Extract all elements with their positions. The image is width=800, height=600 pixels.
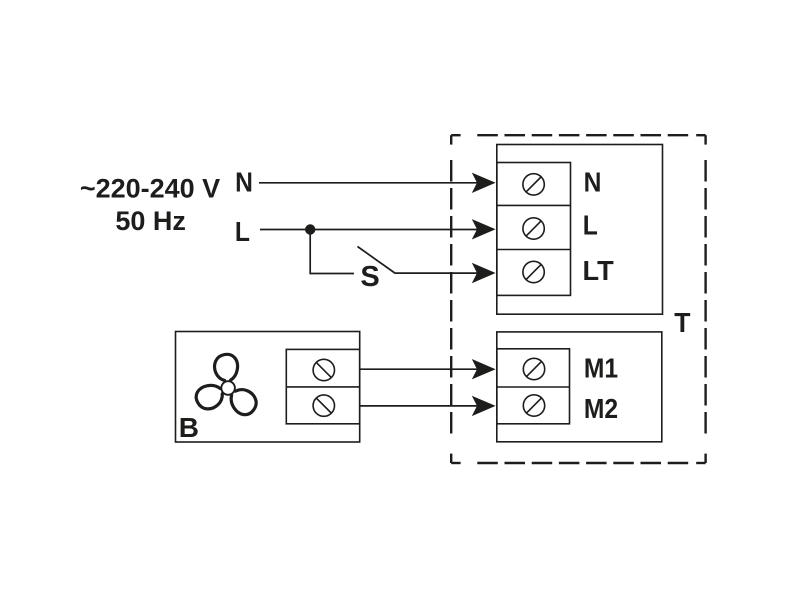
svg-text:LT: LT [583,255,614,286]
fan unit housing B [176,332,360,443]
arrowhead into terminal LT [472,263,496,283]
svg-text:~220-240 V: ~220-240 V [80,174,220,204]
wire L supply to terminal L [260,229,478,231]
switch S blade (open) [358,247,396,274]
svg-text:T: T [674,306,691,338]
screw terminal L [523,218,544,239]
wire junction down to switch [310,230,354,274]
terminal strip M1/M2 [497,349,570,424]
arrowhead into terminal N [472,173,496,193]
svg-text:L: L [583,209,598,241]
screw terminal M1 [523,358,544,379]
wire fan terminal to M2 [360,405,478,407]
terminal block upper housing [497,145,663,315]
screw terminal LT [523,261,544,282]
wire switch to terminal LT [396,272,479,274]
svg-text:L: L [235,215,250,247]
arrowhead into terminal M1 [472,359,496,379]
divider N/L [497,204,571,206]
fan motor terminal strip [286,349,359,423]
svg-text:M2: M2 [584,393,618,425]
junction on L wire [305,224,315,234]
dashed enclosure T (timer unit boundary) [451,135,705,463]
label ~220-240 V 50 Hz (supply rating) [80,174,220,237]
wire N supply to terminal N [259,182,478,184]
divider M1/M2 [497,386,570,388]
terminal strip N/L/LT [497,163,571,296]
svg-text:50 Hz: 50 Hz [115,206,186,236]
fan impeller symbol [193,354,261,419]
divider fan terminals [286,386,359,388]
terminal block lower housing [497,332,662,442]
arrowhead into terminal M2 [472,396,496,416]
screw terminal N [523,174,544,195]
svg-text:N: N [584,166,602,198]
wire fan terminal to M1 [360,368,478,370]
screw terminal M2 [523,395,544,416]
svg-text:S: S [360,261,379,293]
svg-text:M1: M1 [584,352,618,384]
fan screw terminal lower [313,395,334,416]
divider L/LT [497,249,571,251]
arrowhead into terminal L [472,219,496,239]
svg-text:N: N [235,166,253,198]
svg-text:B: B [179,412,199,443]
fan screw terminal upper [313,359,334,380]
